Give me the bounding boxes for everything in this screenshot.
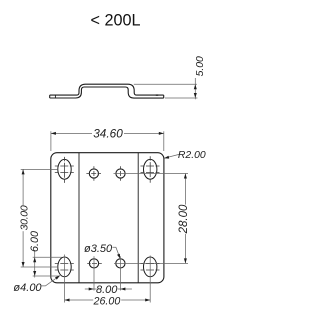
ext 26.00 left (slot centerline extended) [64, 255, 66, 303]
white break 34.60 [92, 128, 124, 139]
dim line 8.00 stubs [85, 288, 97, 290]
centerlines slot BR [141, 264, 160, 270]
bend line left [78, 153, 80, 283]
arrow left 34.60 [51, 132, 56, 135]
ext 30.00 top [21, 168, 58, 170]
right end cap [163, 95, 165, 98]
centerlines slot TR [141, 156, 160, 183]
crosshair hole TL [86, 166, 101, 181]
arrow up 30.00 [22, 169, 25, 174]
arrow O4.00 [55, 276, 60, 280]
ext 8.00 right [119, 256, 121, 290]
white break 28.00 [178, 205, 189, 234]
svg-text:ø4.00: ø4.00 [13, 282, 42, 294]
crosshair hole TR vertical [120, 166, 122, 181]
ext 8.00 left [93, 256, 95, 290]
white break 30.00 [17, 205, 30, 231]
bracket lower surface [50, 87, 164, 98]
ext 30.00 bottom [21, 266, 58, 268]
ext 28.00 bottom [114, 262, 188, 264]
bend line right [137, 153, 139, 283]
crosshair hole BL horizontal [87, 262, 102, 264]
arrow down 28.00 [184, 258, 187, 263]
ext 28.00 top [114, 173, 189, 175]
hole bottom-left [89, 259, 98, 268]
slot BL [58, 257, 71, 277]
leader O4.00 [42, 276, 61, 286]
svg-text:30.00: 30.00 [19, 205, 31, 230]
svg-text:28.00: 28.00 [178, 204, 190, 234]
dim line 34.60 [51, 132, 164, 134]
arrow 8.00 right (points left) [120, 288, 125, 291]
dim line 26.00 [65, 299, 151, 301]
arrow up 28.00 [184, 174, 187, 179]
dim line 6.00 [34, 251, 36, 278]
arrow right 26.00 [145, 299, 150, 302]
arrow R2.00 [164, 156, 169, 159]
arrow down 5.00 [194, 93, 197, 98]
ext line bottom (5.00) [165, 97, 197, 99]
hole top-right [116, 169, 125, 178]
dim line 5.00 [194, 78, 196, 99]
slot BR [144, 257, 157, 277]
arrow right 34.60 [159, 132, 164, 135]
arrow 8.00 left (points right) [89, 288, 94, 291]
hole bottom-right [116, 259, 125, 268]
svg-text:ø3.50: ø3.50 [84, 243, 113, 255]
svg-text:6.00: 6.00 [29, 231, 41, 252]
ext 6.00 bottom [33, 275, 60, 277]
svg-text:R2.00: R2.00 [178, 150, 206, 161]
centerlines slot BL [55, 264, 74, 270]
svg-text:8.00: 8.00 [96, 284, 118, 296]
slot TR [144, 159, 157, 179]
arrow up 5.00 [194, 84, 197, 89]
dim line 30.00 [22, 169, 24, 267]
left tick [54, 95, 56, 98]
arrow O3.50 [117, 254, 120, 259]
ext 34.60 left [50, 131, 52, 151]
bracket upper surface [50, 84, 164, 95]
plate outline [51, 153, 164, 283]
centerlines slot TL [55, 157, 74, 183]
dim line 28.00 [184, 174, 186, 264]
arrow down 30.00 [22, 262, 25, 267]
svg-text:26.00: 26.00 [93, 295, 121, 307]
svg-text:5.00: 5.00 [195, 56, 206, 76]
hole top-left [89, 169, 98, 178]
arrow left 26.00 [65, 299, 70, 302]
ext 34.60 right [163, 131, 165, 151]
leader R2.00 [164, 154, 180, 158]
arrow down 6.00 [33, 271, 36, 276]
ext 6.00 top [33, 256, 62, 258]
svg-text:< 200L: < 200L [91, 12, 141, 30]
ext line top (5.00) [134, 83, 197, 85]
right surface dot [156, 94, 158, 96]
svg-text:34.60: 34.60 [93, 126, 123, 140]
arrow up 6.00 [33, 257, 36, 262]
leader O3.50 [112, 247, 120, 258]
slot TL [58, 159, 71, 179]
ext 26.00 right (slot centerline extended) [149, 256, 151, 303]
white break 26.00 [93, 295, 121, 305]
left end cap [49, 95, 51, 98]
